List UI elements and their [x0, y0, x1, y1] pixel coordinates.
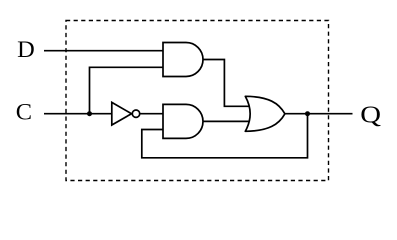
wire Q output: [285, 113, 353, 115]
svg-text:C: C: [16, 100, 32, 125]
node Q junction dot: [305, 111, 310, 116]
wire C branch to top AND: [90, 67, 164, 113]
svg-text:Q: Q: [360, 100, 381, 128]
wire bottom AND output to OR bottom input: [202, 120, 251, 122]
wire inverter output: [140, 113, 163, 115]
inverter U1 bubble: [132, 110, 139, 117]
svg-text:D: D: [17, 38, 35, 63]
and-gate U3 bottom: [163, 104, 203, 138]
or-gate U4: [245, 96, 285, 131]
wire D input: [44, 50, 163, 52]
inverter U1 triangle: [112, 102, 132, 125]
and-gate U2 top: [163, 43, 203, 77]
wire feedback Q to bottom AND input: [142, 114, 308, 158]
wire top AND output to OR top input: [202, 60, 251, 107]
node C junction dot: [87, 111, 92, 116]
wire C input: [44, 113, 113, 115]
latch boundary dashed box: [66, 21, 329, 181]
